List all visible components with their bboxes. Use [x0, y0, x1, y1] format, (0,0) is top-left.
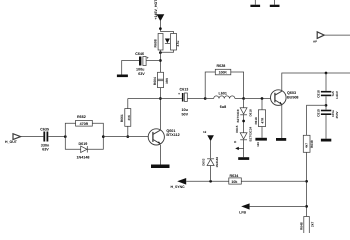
svg-text:BU508: BU508 [287, 95, 298, 99]
wire [159, 21, 161, 32]
capacitor C635 [40, 128, 50, 152]
capacitor C608 [171, 34, 181, 51]
svg-text:123: 123 [256, 142, 260, 147]
wire [160, 50, 173, 52]
node [242, 97, 245, 100]
svg-text:C613: C613 [180, 87, 189, 91]
wire [325, 73, 327, 91]
wire [250, 205, 307, 207]
transistor Q603 [271, 90, 299, 106]
wire [127, 126, 129, 136]
svg-text:1N4148: 1N4148 [77, 156, 90, 160]
connector H_SYNC [171, 178, 187, 189]
svg-text:L601: L601 [219, 91, 227, 95]
resistor R604 [153, 72, 169, 87]
wire [186, 180, 229, 182]
svg-text:D619: D619 [79, 142, 88, 146]
ground [151, 165, 170, 169]
resistor R628 [215, 64, 231, 75]
svg-text:R648: R648 [300, 222, 304, 230]
capacitor C618 [317, 90, 340, 99]
diode D603 [201, 157, 219, 168]
node [159, 97, 162, 100]
svg-text:R661: R661 [120, 114, 124, 122]
connector LFB [239, 203, 249, 214]
connector H_OUT [5, 134, 21, 144]
wire [243, 99, 245, 108]
wire [307, 105, 326, 135]
svg-text:100R: 100R [219, 71, 228, 75]
wire [92, 123, 103, 136]
node [305, 180, 308, 183]
diode D619 [77, 142, 90, 159]
node [159, 27, 162, 30]
svg-text:47R: 47R [261, 117, 265, 124]
node [261, 97, 264, 100]
svg-text:C619: C619 [317, 109, 321, 117]
node [204, 97, 207, 100]
power +145V_HOT [154, 0, 164, 21]
svg-text:BZT03C9: BZT03C9 [236, 109, 240, 122]
node [209, 180, 212, 183]
svg-text:C618: C618 [317, 90, 321, 98]
diode D608 [165, 39, 170, 44]
node [159, 51, 162, 54]
ground [276, 138, 286, 141]
ground [255, 138, 267, 141]
wire [243, 115, 245, 133]
svg-text:AP: AP [313, 39, 317, 43]
wire [325, 96, 327, 110]
svg-text:R639: R639 [310, 140, 314, 148]
wire [160, 32, 173, 34]
ground [321, 139, 331, 142]
svg-text:470R: 470R [80, 122, 89, 126]
wire [261, 127, 263, 138]
capacitor C613 [178, 87, 189, 116]
svg-text:R604: R604 [153, 77, 157, 85]
svg-text:BTX112: BTX112 [166, 133, 179, 137]
wire [324, 34, 350, 36]
wire [261, 99, 263, 110]
resistor R618 [254, 110, 266, 127]
svg-text:H_OUT: H_OUT [5, 140, 18, 144]
ground [270, 0, 280, 7]
svg-text:D618: D618 [249, 109, 253, 117]
svg-text:3R9: 3R9 [165, 78, 169, 84]
svg-text:63V: 63V [42, 148, 49, 152]
svg-text:10k: 10k [231, 180, 237, 184]
resistor R608 [153, 34, 163, 51]
node [325, 72, 328, 75]
node [305, 205, 308, 208]
connector arrow [235, 147, 243, 150]
wire [122, 61, 139, 75]
wire [160, 98, 182, 100]
svg-text:C635: C635 [40, 128, 49, 132]
node [159, 59, 162, 62]
wire [159, 145, 161, 165]
svg-text:47u: 47u [176, 41, 180, 47]
ground [117, 75, 128, 78]
resistor R661 [120, 109, 131, 127]
wire [281, 105, 283, 138]
wire [282, 73, 350, 91]
svg-text:+: + [178, 92, 180, 96]
svg-text:R628: R628 [217, 64, 226, 68]
wire [205, 72, 215, 99]
svg-text:1N4148: 1N4148 [215, 157, 219, 168]
ground [238, 157, 249, 160]
svg-text:+: + [147, 56, 149, 60]
node [325, 104, 328, 107]
wire [65, 123, 75, 136]
wire [65, 137, 80, 150]
wire [159, 88, 161, 130]
capacitor C619 [317, 109, 340, 119]
svg-text:BZT03C24: BZT03C24 [249, 126, 253, 141]
wire [243, 140, 245, 157]
svg-text:D615: D615 [235, 125, 239, 133]
svg-text:250V: 250V [335, 111, 339, 118]
node [64, 135, 67, 138]
node [126, 135, 129, 138]
svg-text:4k7: 4k7 [305, 143, 309, 148]
svg-text:R608: R608 [153, 39, 157, 47]
ground [250, 0, 260, 7]
svg-text:R662: R662 [77, 115, 86, 119]
svg-text:63V: 63V [138, 72, 145, 76]
svg-text:+145V_HOT: +145V_HOT [154, 0, 158, 20]
node [242, 120, 245, 123]
wire [325, 115, 327, 139]
wire [87, 137, 103, 150]
svg-text:D603: D603 [201, 158, 205, 166]
wire [244, 98, 271, 100]
power +12 [203, 130, 214, 141]
svg-text:20K: 20K [127, 114, 131, 120]
svg-text:H_SYNC: H_SYNC [171, 185, 186, 189]
resistor R634 [229, 174, 242, 184]
resistor R648 [300, 217, 315, 234]
svg-text:C646: C646 [135, 52, 144, 56]
capacitor C646 [135, 52, 149, 76]
wire [306, 152, 308, 216]
transistor Q601 [148, 129, 180, 145]
resistor R662 [76, 115, 93, 126]
svg-text:LFB: LFB [239, 210, 246, 214]
svg-text:R618: R618 [254, 117, 258, 125]
diode D618 [236, 108, 253, 123]
wire [127, 99, 129, 109]
wire [21, 136, 44, 138]
wire [146, 60, 160, 62]
wire [187, 98, 205, 100]
svg-text:2k7: 2k7 [311, 221, 315, 227]
connector out right [313, 32, 324, 44]
svg-text:50V: 50V [182, 112, 189, 116]
wire [48, 136, 65, 138]
svg-text:12: 12 [203, 130, 207, 134]
wire [241, 180, 306, 182]
resistor R639 [303, 135, 314, 152]
wire [210, 166, 212, 182]
svg-text:100u: 100u [136, 67, 145, 71]
wire [128, 98, 161, 100]
node [102, 135, 105, 138]
inductor L601 [205, 91, 243, 109]
wire [103, 136, 148, 138]
svg-text:Q603: Q603 [287, 91, 296, 95]
svg-text:1.6kV: 1.6kV [335, 91, 339, 99]
wire [210, 141, 212, 158]
wire [231, 72, 244, 99]
wire [159, 50, 161, 72]
svg-text:6u8: 6u8 [220, 105, 226, 109]
diode D615 [235, 125, 252, 141]
